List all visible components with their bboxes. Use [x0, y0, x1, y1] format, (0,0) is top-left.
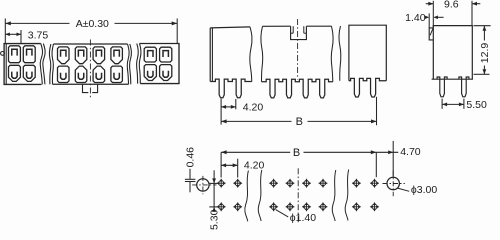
front view middle block pocket top 3 (n) [93, 47, 105, 64]
dimension 5.50 line [442, 103, 464, 105]
footprint big circle right crosshair [383, 183, 405, 185]
footprint dimension B line [221, 151, 290, 153]
front view right block outline [140, 44, 180, 84]
side view middle section break edge left [261, 26, 263, 81]
dimension 12.9 line [483, 26, 485, 41]
footprint hole top row 2 (φ1.40) [234, 179, 242, 187]
dimension A±0.30 extension line right [176, 19, 178, 44]
front view middle block pocket bottom 4 (u) [111, 66, 123, 82]
front view middle block pocket top 4 (n) [111, 47, 123, 64]
dimension 4.20 line [221, 106, 236, 108]
footprint extension line right holes [375, 152, 377, 177]
footprint hole top row 5 (φ1.40) [302, 179, 310, 187]
end view latch [429, 28, 433, 40]
footprint hole bottom row 3 (φ1.40) [269, 203, 277, 211]
front view side bump [1, 52, 5, 56]
footprint break line 2a [332, 170, 336, 221]
svg-text:1.40: 1.40 [405, 12, 426, 24]
leader line φ1.40 [276, 210, 289, 217]
footprint hole bottom row 4 (φ1.40) [286, 203, 294, 211]
footprint hole top row 6 (φ1.40) [319, 179, 327, 187]
front view middle block bottom edge [53, 83, 129, 85]
front view right block pocket 3 (u) [144, 65, 156, 81]
svg-text:0.46: 0.46 [185, 147, 197, 168]
svg-text:12.9: 12.9 [479, 43, 491, 64]
end view pin 2 [459, 77, 469, 97]
footprint hole bottom row 6 (φ1.40) [319, 203, 327, 211]
front view bottom tab [83, 84, 89, 92]
side view left section bottom and pins [210, 79, 252, 98]
front view middle block top edge [54, 43, 128, 45]
dimension B extension line right [376, 97, 378, 125]
footprint hole top row 1 (φ1.40) [217, 179, 225, 187]
svg-text:4.20: 4.20 [244, 160, 265, 172]
side view right section bottom and pins [349, 78, 386, 97]
footprint centerline [297, 168, 299, 222]
footprint hole bottom row 8 (φ1.40) [370, 203, 378, 211]
end view pin 1 [437, 77, 447, 97]
side view left section break edge [250, 27, 252, 82]
svg-text:9.6: 9.6 [444, 0, 459, 11]
svg-text:4.20: 4.20 [243, 101, 264, 113]
front view middle block pocket bottom 1 (u) [58, 66, 70, 82]
side view right section break edge [339, 26, 341, 81]
footprint big circle left crosshair [192, 184, 216, 186]
front view middle block pocket top 2 (n) [75, 47, 87, 64]
leader line φ3.00 [398, 188, 410, 191]
end view body bottom edge [432, 78, 473, 80]
end view body outline [433, 26, 472, 80]
footprint hole bottom row 5 (φ1.40) [302, 203, 310, 211]
svg-text:5.50: 5.50 [466, 99, 487, 111]
footprint break line 1b [258, 170, 262, 221]
footprint hole top row 3 (φ1.40) [269, 179, 277, 187]
dimension 5.50 extension lines [441, 99, 443, 109]
front view right block break edge [139, 44, 141, 84]
front view right block pocket 4 (u) [160, 65, 172, 81]
front view left block pocket 2 (n) [23, 46, 35, 63]
side view left section walls [209, 28, 211, 82]
front view centerline [89, 40, 91, 98]
footprint break line 2b [345, 170, 349, 221]
front view middle block break edge left [52, 44, 54, 84]
front view left block pocket 3 (u) [9, 65, 21, 81]
front view right block pocket 1 (n) [144, 47, 156, 62]
front view left block pocket 4 (u) [23, 65, 35, 81]
footprint dimension 4.20 line [221, 164, 238, 166]
side view middle section bottom and pins [262, 79, 333, 98]
dimension 3.75 extension line [20, 30, 22, 44]
footprint hole top row 7 (φ1.40) [352, 179, 360, 187]
front view left block pocket 1 (n) [9, 46, 21, 63]
front view right block pocket 2 (n) [160, 47, 172, 62]
dimension 1.40 extension lines [432, 1, 434, 28]
front view middle block pocket top 1 (n) [58, 47, 70, 64]
side view middle section top edge [263, 25, 291, 27]
side view right section outline [349, 25, 386, 81]
dimension A±0.30 extension line left [4, 19, 6, 44]
footprint hole bottom row 1 (φ1.40) [217, 203, 225, 211]
footprint big circle left (φ3.00) [197, 179, 209, 191]
dimension A±0.30 line [5, 22, 69, 24]
svg-text:ϕ3.00: ϕ3.00 [411, 184, 437, 196]
front view middle block pocket bottom 2 (u) [75, 66, 87, 82]
side view left section top edge [210, 27, 250, 28]
footprint break line 1a [245, 171, 249, 222]
footprint hole bottom row 2 (φ1.40) [234, 203, 242, 211]
front view left block break edge [40, 44, 42, 85]
footprint hole top row 4 (φ1.40) [286, 179, 294, 187]
side view middle section break edge right [331, 26, 333, 81]
dimension 3.75 line [5, 33, 21, 35]
dimension 4.20 extension line pin1 [220, 99, 222, 125]
front view left block outline [4, 44, 41, 85]
svg-text:3.75: 3.75 [28, 29, 49, 41]
svg-text:B: B [293, 147, 300, 159]
footprint hole bottom row 7 (φ1.40) [352, 203, 360, 211]
dimension 12.9 bottom tick [474, 73, 490, 75]
svg-text:4.70: 4.70 [400, 146, 421, 158]
svg-text:ϕ1.40: ϕ1.40 [290, 212, 316, 224]
dimension 1.40 line [425, 16, 430, 20]
footprint dimension 4.20 extension [237, 159, 239, 178]
svg-text:A±0.30: A±0.30 [76, 18, 109, 30]
svg-text:5.30: 5.30 [209, 209, 221, 230]
footprint extension line left holes [220, 152, 222, 177]
dimension 9.6 line [426, 3, 434, 5]
footprint hole top row 8 (φ1.40) [370, 179, 378, 187]
svg-text:B: B [296, 116, 303, 128]
footprint big circle right (φ3.00) [387, 177, 399, 189]
side view top notch [291, 26, 307, 39]
front view middle block break edge right [127, 44, 129, 84]
dimension 0.46 line and ticks [189, 169, 191, 179]
footprint extension line big circle right [392, 141, 394, 177]
dimension 4.20 extension line pin2 [235, 99, 237, 109]
dimension 12.9 top tick [474, 25, 491, 27]
dimension 5.30 line [213, 170, 215, 183]
front view middle block pocket bottom 3 (u) [93, 66, 105, 82]
side view centerline [297, 19, 299, 80]
dimension 9.6 extension right [471, 1, 473, 26]
dimension B line (side view) [221, 120, 291, 122]
footprint dimension 4.70 line [376, 151, 398, 153]
